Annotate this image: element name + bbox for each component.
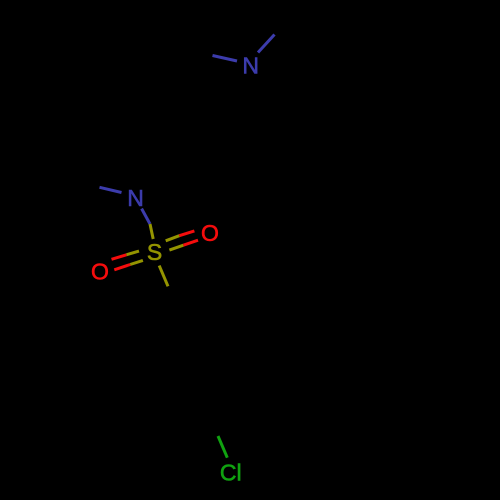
svg-text:N: N xyxy=(242,53,259,79)
svg-text:O: O xyxy=(91,258,109,284)
svg-text:O: O xyxy=(201,220,219,246)
svg-text:N: N xyxy=(127,185,144,211)
svg-text:Cl: Cl xyxy=(220,459,242,485)
svg-text:S: S xyxy=(147,239,162,265)
